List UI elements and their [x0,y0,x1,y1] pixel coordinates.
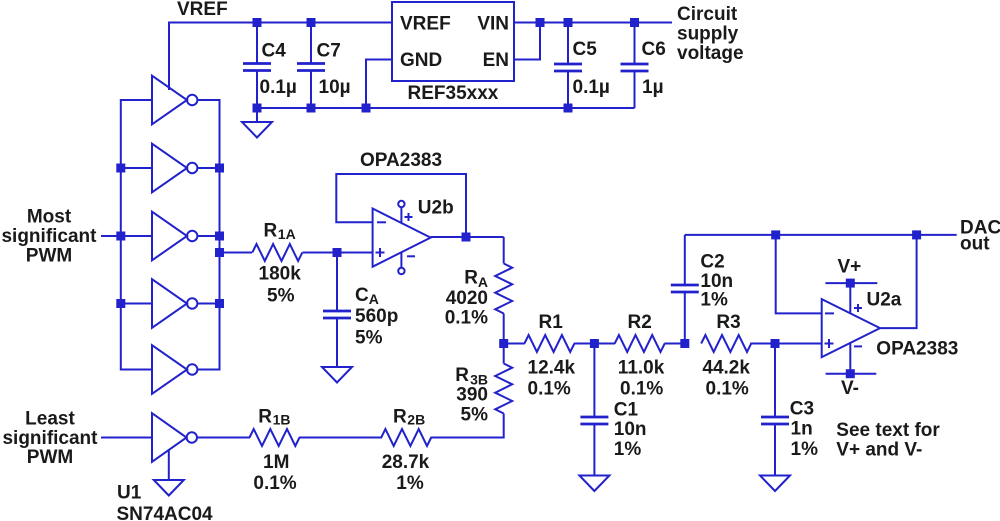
svg-text:R2: R2 [628,312,652,333]
capacitor C6 [634,23,636,109]
wire R3B bottom to R2B [431,414,504,438]
wire RA bottom lead [503,314,505,344]
U2a noninverting input plus sign [825,339,834,348]
svg-text:1%: 1% [791,439,819,460]
svg-text:U2a: U2a [867,290,902,311]
svg-text:560p: 560p [355,306,398,327]
node C7 top [307,18,316,27]
svg-text:28.7k: 28.7k [382,452,430,473]
svg-text:C7: C7 [317,41,341,62]
svg-text:0.1%: 0.1% [445,308,488,329]
wire input stub inverter 3 [121,235,152,237]
wire right output bus [198,100,220,370]
U2b negative supply pin [398,268,404,274]
node output bus inv2 [215,164,224,173]
wire VIN rail [514,22,672,24]
wire VREF rail and inverter power stem [169,23,392,91]
svg-text:R: R [258,407,272,428]
bottom rail wire [257,107,635,109]
svg-text:Most: Most [27,207,72,228]
node C7 bottom rail [307,104,316,113]
op-amp U2b [373,209,431,267]
svg-text:1µ: 1µ [642,77,664,98]
U2b supply plus sign [405,213,413,221]
node C4 top [253,18,262,27]
resistor R2B [381,429,431,446]
svg-text:V+ and V-: V+ and V- [836,440,922,461]
svg-text:significant: significant [1,226,97,247]
inverter U1f [152,413,187,462]
svg-text:C1: C1 [614,400,639,421]
U2b positive supply pin [398,201,404,207]
svg-text:VIN: VIN [477,14,509,35]
svg-text:R: R [464,268,478,289]
svg-text:5%: 5% [267,286,295,307]
svg-text:12.4k: 12.4k [528,358,576,379]
svg-text:10µ: 10µ [319,77,351,98]
svg-text:Least: Least [25,409,75,430]
svg-text:1%: 1% [396,473,424,494]
svg-text:C5: C5 [573,39,598,60]
wire U1f output [197,437,250,439]
capacitor C4 [256,23,258,109]
node C4 bottom rail [253,104,262,113]
svg-text:1%: 1% [700,290,728,311]
node C5 bottom [564,104,573,113]
wire R1A left lead [220,252,253,254]
node GND rail [362,104,371,113]
wire R1A right lead [303,252,338,254]
svg-text:C: C [355,285,369,306]
resistor R2 [615,335,665,352]
svg-text:significant: significant [2,428,98,449]
ground under U1f [168,450,170,480]
wire left input bus [121,100,152,370]
node U2b output [462,233,471,242]
U2b inverting input minus sign [377,221,386,223]
svg-text:R: R [264,221,278,242]
svg-text:voltage: voltage [677,43,744,64]
inverter U1a [152,76,187,125]
svg-text:0.1%: 0.1% [620,379,663,400]
svg-text:390: 390 [456,385,488,406]
U2a inverting input minus sign [825,312,834,314]
svg-text:11.0k: 11.0k [618,358,665,379]
op-amp U2a [822,299,880,357]
node V- bar [846,369,855,378]
wire to U2a noninverting input [775,343,822,345]
wire R1 left lead [504,343,525,345]
wire R2 leads [594,343,615,345]
svg-text:U2b: U2b [418,198,454,219]
wire R3B top lead [503,344,505,364]
svg-text:0.1%: 0.1% [706,379,749,400]
wire U2a output [880,235,917,328]
svg-text:4020: 4020 [446,288,488,309]
svg-text:GND: GND [400,50,442,71]
svg-text:0.1%: 0.1% [528,379,571,400]
capacitor C1 [593,344,595,476]
svg-text:10n: 10n [614,419,647,440]
node input bus inv4 [116,299,125,308]
wire R1 right lead [574,343,594,345]
node input bus inv3 [116,232,125,241]
svg-text:1M: 1M [263,452,289,473]
svg-text:2B: 2B [407,412,425,428]
svg-text:See text for: See text for [836,420,940,441]
svg-text:Circuit: Circuit [677,4,738,25]
svg-text:REF35xxx: REF35xxx [408,83,499,104]
svg-text:5%: 5% [355,328,383,349]
capacitor C3 [774,344,776,476]
svg-text:R3: R3 [716,312,740,333]
svg-text:V+: V+ [838,257,862,278]
svg-text:44.2k: 44.2k [702,358,750,379]
wire input stub inverter 2 [121,167,152,169]
wire EN to VIN [514,23,540,60]
svg-text:C2: C2 [700,252,724,273]
svg-text:SN74AC04: SN74AC04 [117,504,214,521]
svg-text:VREF: VREF [177,0,228,20]
wire Least significant PWM input [101,437,152,439]
svg-text:1A: 1A [278,226,296,242]
U2a supply plus sign [854,304,862,312]
V+ supply stem and bar [849,283,851,313]
wire RA top lead [503,237,505,264]
svg-text:PWM: PWM [27,447,73,468]
svg-text:0.1µ: 0.1µ [260,77,297,98]
wire output stub inverter 4 [198,303,220,305]
wire output stub inverter 3 [198,235,220,237]
ground under C1 [579,476,609,492]
U2b noninverting input plus sign [376,248,385,257]
svg-text:5%: 5% [461,405,489,426]
svg-text:VREF: VREF [400,14,451,35]
inverter U1d [152,279,187,328]
node C6 top [630,18,639,27]
node R3 C3 U2a junction [771,339,780,348]
node RA R3B R1 junction [499,339,508,348]
svg-text:R: R [393,407,407,428]
wire GND to bottom rail [366,60,392,109]
svg-text:PWM: PWM [26,246,72,267]
node output bus inv3 [215,232,224,241]
svg-text:R1: R1 [539,312,564,333]
V- supply stem and bar [849,343,851,374]
svg-text:C4: C4 [262,41,287,62]
wire DAC out rail [685,234,957,236]
U2b supply minus sign [407,255,415,257]
wire to U2b noninverting input [337,252,373,254]
svg-text:OPA2383: OPA2383 [360,150,442,171]
svg-text:1n: 1n [791,419,813,440]
svg-text:supply: supply [677,24,739,45]
ground under C3 [760,476,790,492]
svg-text:0.1µ: 0.1µ [573,77,610,98]
svg-text:180k: 180k [259,264,302,285]
svg-text:1B: 1B [273,412,291,428]
resistor R3 [701,335,751,352]
svg-text:R: R [455,365,469,386]
resistor R1 [524,335,574,352]
svg-text:A: A [369,291,379,307]
svg-text:C6: C6 [642,39,666,60]
svg-text:EN: EN [483,50,509,71]
node R2 R3 C2 junction [680,339,689,348]
inverter U1e [152,345,187,394]
wire R1B to R2B [299,437,382,439]
wire U2a feedback [776,235,822,314]
U2a supply minus sign [854,345,862,347]
wire R3 right lead [750,343,775,345]
resistor RA [495,264,512,314]
inverter U1c [152,212,187,261]
node input bus inv2 [116,164,125,173]
wire output stub inverter 2 [198,167,220,169]
resistor R3B [495,364,512,414]
node R1A CA opamp junction [333,248,342,257]
node rail feedback tap [771,230,780,239]
resistor R1B [250,429,300,446]
resistor R1A [252,244,302,261]
wire U2b output [431,236,504,238]
node V+ bar [846,279,855,288]
inverter U1b [152,144,187,193]
svg-text:out: out [960,234,990,255]
svg-text:C3: C3 [790,399,814,420]
wire input stub inverter 4 [121,303,152,305]
node output bus inv4 [215,299,224,308]
node R1 R2 C1 junction [590,339,599,348]
capacitor C2 [684,235,686,344]
capacitor CA [336,253,338,368]
node EN riser [536,18,545,27]
svg-text:0.1%: 0.1% [253,473,296,494]
wire U2b feedback loop [336,174,466,237]
ground under CA [322,367,352,383]
wire Most significant PWM input [101,235,121,237]
svg-text:OPA2383: OPA2383 [876,339,958,360]
svg-text:U1: U1 [117,483,142,504]
capacitor C7 [310,23,312,109]
node output bus R1A tap [215,248,224,257]
svg-text:1%: 1% [614,439,642,460]
node C5 top [564,18,573,27]
voltage reference U3 REF35xxx box [392,2,514,81]
node rail U2a output [912,230,921,239]
svg-text:V-: V- [841,378,859,399]
capacitor C5 [567,23,569,109]
ground under C4 [256,108,258,122]
